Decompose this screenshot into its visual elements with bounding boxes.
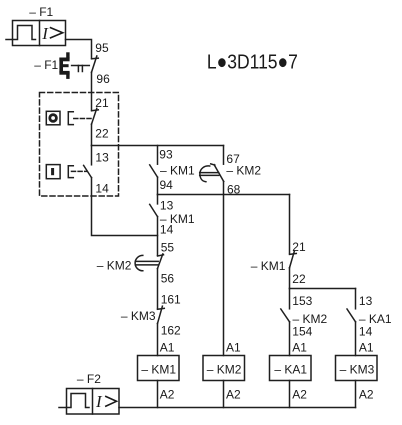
wire junction to KM2 column <box>92 145 224 147</box>
bottom bus wire <box>119 407 356 409</box>
svg-text:A2: A2 <box>226 387 241 401</box>
thermal trip symbol F1 <box>59 52 69 79</box>
contact KM1 13-14 (NO) <box>150 195 158 217</box>
stop button head <box>46 111 60 125</box>
wire left stub to F2 <box>59 407 67 409</box>
svg-text:A1: A1 <box>292 340 307 354</box>
svg-text:– F1: – F1 <box>29 5 53 19</box>
contact F1 95-96 (NC) <box>92 56 99 72</box>
svg-text:22: 22 <box>292 272 306 286</box>
overload relay F1 box <box>13 21 66 46</box>
coil KM1 <box>138 356 180 381</box>
contact KM2 55-56 (NC, time delay) <box>158 254 164 269</box>
wire KA1 A2 to bus <box>289 381 291 408</box>
wire 14 down to 55 <box>157 217 159 256</box>
svg-text:I: I <box>41 24 49 43</box>
svg-text:21: 21 <box>95 96 109 110</box>
contact KM2 67-68 (NO, time delay) <box>214 146 224 195</box>
wire junction 94-68 to KM1 21 column <box>158 194 290 196</box>
svg-text:153: 153 <box>292 294 312 308</box>
svg-text:22: 22 <box>95 126 109 140</box>
wire 162 to coil KM1 <box>157 324 159 356</box>
contact KM2 153-154 (NO) <box>281 289 290 356</box>
start button head <box>46 165 60 179</box>
overload relay F2 box <box>67 389 120 415</box>
wire F1 box to contact 95 <box>66 40 92 58</box>
svg-text:A2: A2 <box>359 387 374 401</box>
contact KM1 21-22 (NC) <box>290 251 297 268</box>
wire start button down and right <box>92 178 158 236</box>
wire 56 down to 161 <box>157 269 159 309</box>
svg-text:96: 96 <box>96 72 110 86</box>
wire KM2 A2 to bus <box>223 381 225 408</box>
svg-text:13: 13 <box>359 294 373 308</box>
svg-text:94: 94 <box>160 178 174 192</box>
contact KA1 13-14 (NO) <box>347 289 356 356</box>
wire left stub to F1 <box>6 39 13 41</box>
svg-text:L●3D115●7: L●3D115●7 <box>207 52 298 74</box>
svg-text:14: 14 <box>359 324 373 338</box>
svg-text:I: I <box>95 392 103 411</box>
svg-text:14: 14 <box>160 222 174 236</box>
delay symbol KM2 55-56 <box>135 255 158 270</box>
svg-text:A2: A2 <box>292 387 307 401</box>
contact start 13-14 (NO) <box>84 146 92 178</box>
svg-text:68: 68 <box>227 183 241 197</box>
svg-text:– KM3: – KM3 <box>121 309 156 323</box>
wire KM1 A2 to bus <box>157 381 159 408</box>
wire junction to KA1 column <box>290 288 356 290</box>
svg-text:– KM2: – KM2 <box>97 259 132 273</box>
svg-text:– KM3: – KM3 <box>340 362 375 376</box>
wire KM3 A2 to bus <box>355 381 357 408</box>
start button actuator <box>68 166 87 178</box>
pulse symbol in F1 box <box>13 26 36 40</box>
svg-text:95: 95 <box>95 41 109 55</box>
svg-text:– KM2: – KM2 <box>207 362 242 376</box>
coil KA1 <box>270 356 312 381</box>
svg-text:13: 13 <box>160 198 174 212</box>
svg-text:A1: A1 <box>160 340 175 354</box>
contact stop 21-22 (NC) <box>92 108 99 124</box>
svg-text:55: 55 <box>161 240 175 254</box>
svg-text:14: 14 <box>95 182 109 196</box>
svg-text:162: 162 <box>161 323 181 337</box>
svg-text:13: 13 <box>95 150 109 164</box>
svg-text:161: 161 <box>161 292 181 306</box>
svg-text:– KM1: – KM1 <box>251 259 286 273</box>
svg-text:– KM1: – KM1 <box>160 163 195 177</box>
wire 96 down into pushbutton box <box>91 72 93 109</box>
coil KM3 <box>336 356 378 381</box>
pulse symbol in F2 box <box>67 394 90 408</box>
svg-text:154: 154 <box>292 324 312 338</box>
contact KM1 93-94 (NO) <box>150 146 158 195</box>
wire 22 down to junction <box>289 268 291 289</box>
wire down to KM1 21 contact <box>289 195 291 254</box>
contact KM3 161-162 (NC) <box>158 306 165 323</box>
stop button actuator <box>68 112 92 125</box>
link F1 trip to contact <box>72 66 90 72</box>
svg-text:– F2: – F2 <box>77 372 101 386</box>
svg-text:– KA1: – KA1 <box>274 362 307 376</box>
wire 22 to junction <box>91 124 93 145</box>
wire KM2 column down to coil <box>223 195 225 356</box>
svg-text:– KM2: – KM2 <box>226 164 261 178</box>
delay symbol KM2 67-68 <box>200 164 219 182</box>
coil KM2 <box>203 356 245 381</box>
svg-text:93: 93 <box>159 148 173 162</box>
dashed enclosure pushbutton station <box>40 93 119 197</box>
svg-text:– KM1: – KM1 <box>141 362 176 376</box>
svg-text:A1: A1 <box>226 340 241 354</box>
svg-text:A2: A2 <box>160 387 175 401</box>
svg-text:A1: A1 <box>359 340 374 354</box>
svg-text:21: 21 <box>292 240 306 254</box>
svg-text:– F1: – F1 <box>34 58 58 72</box>
svg-text:56: 56 <box>161 271 175 285</box>
